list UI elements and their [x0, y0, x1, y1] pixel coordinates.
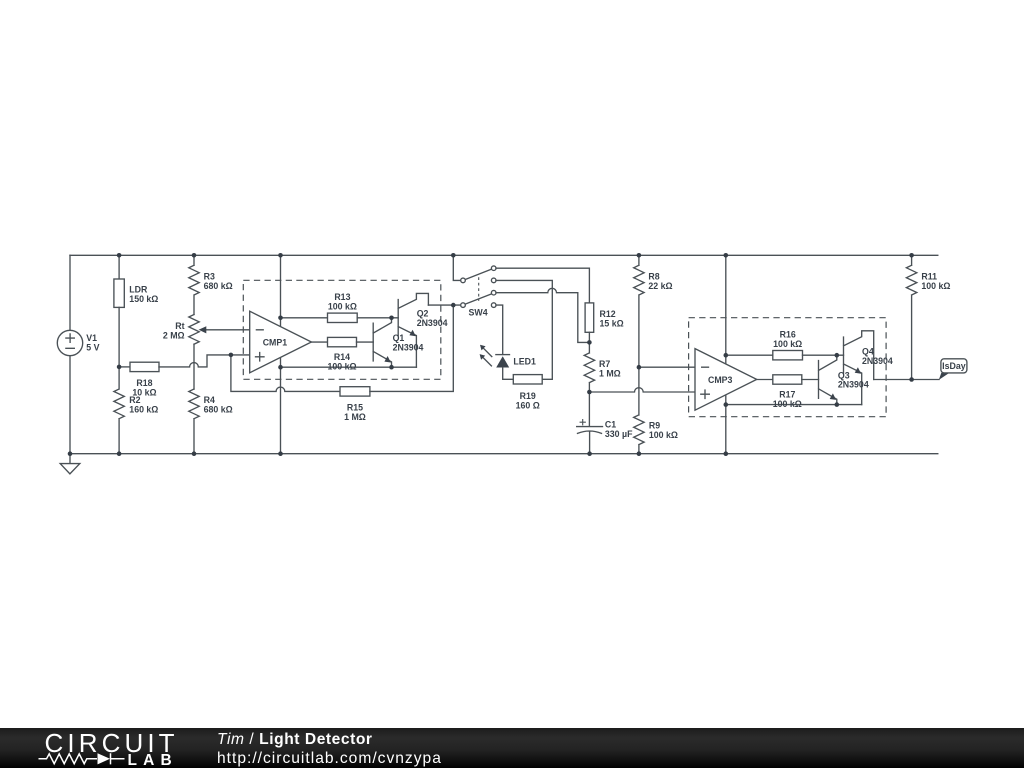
- wire V1 to bottom rail: [69, 356, 71, 454]
- svg-text:10 kΩ: 10 kΩ: [132, 388, 156, 398]
- potentiometer Rt: [189, 315, 250, 345]
- wire emitter rail CMP3: [726, 404, 862, 406]
- flag IsDay: [939, 359, 967, 380]
- svg-text:680 kΩ: 680 kΩ: [204, 281, 233, 291]
- wire V1 to top rail: [69, 255, 71, 330]
- wire bottom ground rail: [70, 453, 938, 455]
- wire top power rail: [70, 254, 938, 256]
- resistor R2: [114, 367, 124, 454]
- svg-text:2N3904: 2N3904: [862, 356, 893, 366]
- transistor Q1: [373, 318, 391, 367]
- svg-text:100 kΩ: 100 kΩ: [921, 281, 950, 291]
- comparator CMP1 internals box: [243, 280, 440, 379]
- capacitor C1: [577, 392, 603, 454]
- svg-text:100 kΩ: 100 kΩ: [649, 430, 678, 440]
- wire Rt to R4: [193, 344, 195, 389]
- wire CMP3 output to IsDay node: [874, 379, 939, 381]
- wire emitter rail CMP1: [281, 366, 417, 368]
- wire SW4 throw 1a to R12: [496, 268, 589, 303]
- svg-text:1 MΩ: 1 MΩ: [344, 412, 366, 422]
- svg-text:330 µF: 330 µF: [605, 429, 633, 439]
- op-amp CMP3: [695, 349, 757, 411]
- wire R13 right to Q2 base: [357, 317, 398, 319]
- svg-text:LED1: LED1: [513, 356, 536, 366]
- svg-text:100 kΩ: 100 kΩ: [328, 302, 357, 312]
- svg-text:SW4: SW4: [469, 308, 488, 318]
- transistor Q2: [398, 293, 428, 367]
- resistor R3: [189, 255, 199, 314]
- op-amp CMP1: [250, 311, 312, 373]
- resistor R8: [634, 255, 644, 367]
- wire supply through CMP3: [725, 255, 727, 453]
- wire SW4 throw 2a to R12 bottom node: [496, 288, 589, 342]
- svg-text:160 kΩ: 160 kΩ: [129, 405, 158, 415]
- wire R8 node to CMP3 minus input: [639, 366, 695, 368]
- svg-text:1 MΩ: 1 MΩ: [599, 368, 621, 378]
- transistor Q4: [844, 331, 874, 405]
- svg-text:5 V: 5 V: [86, 342, 99, 352]
- svg-text:22 kΩ: 22 kΩ: [648, 281, 672, 291]
- svg-text:CMP3: CMP3: [708, 375, 733, 385]
- wire R7 node to CMP3 plus input: [589, 388, 695, 392]
- svg-text:IsDay: IsDay: [942, 361, 966, 371]
- resistor R18: [119, 355, 250, 372]
- svg-text:LAB: LAB: [128, 752, 178, 768]
- wire R13 left: [281, 317, 328, 319]
- resistor R7: [584, 342, 594, 392]
- switch SW4: [461, 266, 496, 308]
- wire R17 to Q3 base: [802, 379, 819, 381]
- svg-text:160 Ω: 160 Ω: [516, 400, 540, 410]
- wire CMP3 output to R17: [757, 379, 773, 381]
- svg-text:150 kΩ: 150 kΩ: [129, 294, 158, 304]
- comparator CMP3 internals box: [689, 318, 887, 417]
- svg-text:2 MΩ: 2 MΩ: [163, 330, 185, 340]
- resistor R14: [328, 337, 357, 346]
- wire SW4 throw 1b to R19: [496, 280, 552, 379]
- wire supply through CMP1: [280, 255, 282, 453]
- wire LDR top: [118, 255, 120, 279]
- voltage source V1: [57, 330, 82, 355]
- svg-text:2N3904: 2N3904: [393, 342, 424, 352]
- wire R15 to CMP1 output node: [370, 305, 453, 391]
- svg-text:CMP1: CMP1: [263, 338, 288, 348]
- ground: [60, 454, 80, 474]
- svg-text:2N3904: 2N3904: [417, 318, 448, 328]
- wire feedback node to R15: [231, 355, 340, 392]
- resistor R9: [634, 367, 644, 454]
- resistor R12: [585, 303, 594, 343]
- resistor R4: [189, 389, 199, 454]
- resistor R11: [906, 255, 916, 379]
- resistor R16: [773, 351, 803, 360]
- junction dots: [68, 253, 914, 456]
- wire top rail to SW4 pole 1: [453, 255, 460, 280]
- resistor R13: [328, 313, 358, 322]
- wire R16 left: [726, 354, 773, 356]
- wire LDR to R18 node: [118, 307, 120, 367]
- wire SW4 throw 2b to LED1: [496, 305, 503, 354]
- svg-text:100 kΩ: 100 kΩ: [773, 339, 802, 349]
- labels: [86, 271, 965, 439]
- wire CMP1 output to R14: [311, 341, 327, 343]
- CircuitLab logo: [39, 728, 179, 768]
- resistor R15: [340, 387, 370, 396]
- wire R16 right to Q4 base: [803, 354, 844, 356]
- svg-text:2N3904: 2N3904: [838, 380, 869, 390]
- resistor R19: [513, 375, 542, 384]
- svg-text:100 kΩ: 100 kΩ: [327, 362, 356, 372]
- svg-text:680 kΩ: 680 kΩ: [204, 405, 233, 415]
- transistor Q3: [819, 355, 837, 404]
- resistor R17: [773, 375, 802, 384]
- diode LED1: [480, 345, 514, 380]
- wire CMP1 output to SW4: [428, 304, 460, 306]
- svg-text:100 kΩ: 100 kΩ: [773, 399, 802, 409]
- wire R14 to Q1 base: [357, 341, 374, 343]
- photoresistor LDR: [114, 279, 124, 307]
- svg-text:15 kΩ: 15 kΩ: [600, 318, 624, 328]
